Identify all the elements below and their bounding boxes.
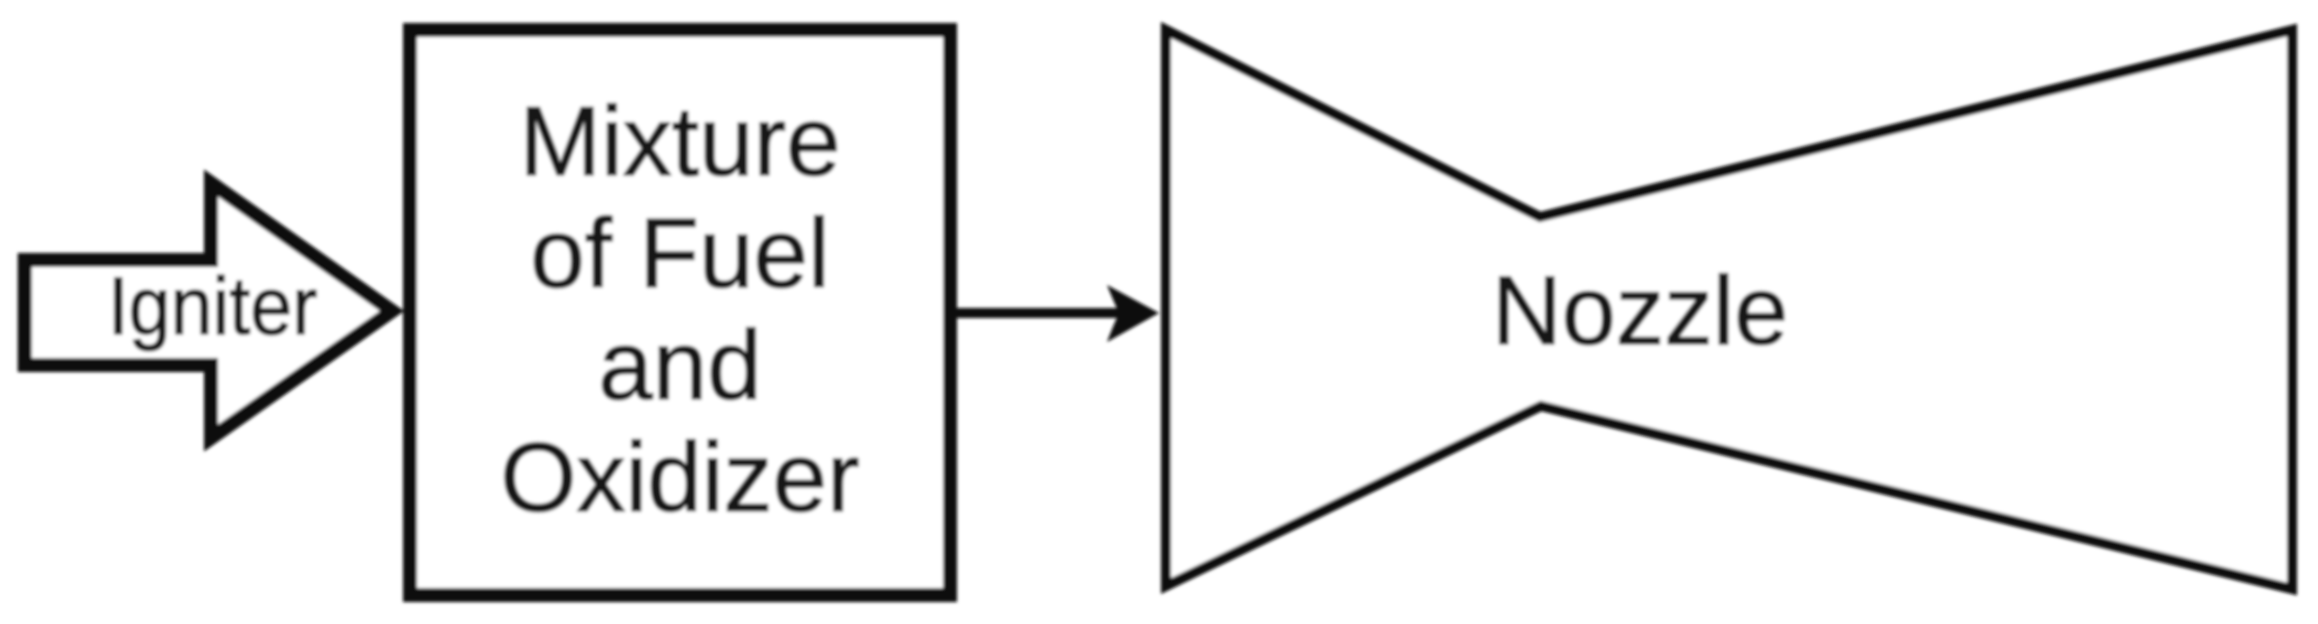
wire from box to nozzle [957, 308, 1125, 318]
svg-text:Oxidizer: Oxidizer [500, 422, 859, 532]
mixture box [410, 30, 950, 595]
arrowhead [1107, 285, 1159, 342]
nozzle outline [1166, 30, 2292, 589]
svg-text:and: and [598, 310, 762, 420]
svg-text:of Fuel: of Fuel [530, 198, 830, 308]
svg-text:Nozzle: Nozzle [1492, 256, 1789, 365]
svg-text:Mixture: Mixture [519, 86, 840, 196]
igniter block arrow [25, 183, 392, 438]
svg-text:Igniter: Igniter [108, 260, 318, 352]
